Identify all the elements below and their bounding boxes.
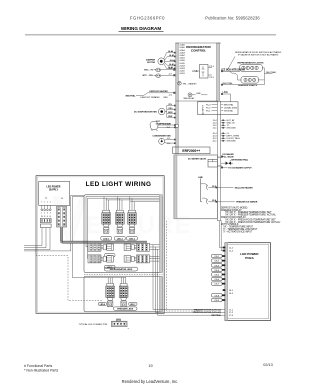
svg-text:ORG: ORG: [168, 108, 173, 110]
svg-text:NTC - TV: NTC - TV: [144, 70, 153, 72]
freezer LED column 2: [119, 284, 137, 307]
svg-text:LINE: LINE: [192, 71, 198, 73]
svg-text:J5-1: J5-1: [167, 138, 171, 140]
LED module column 1: [101, 210, 112, 240]
svg-text:1: 1: [44, 202, 45, 204]
svg-text:FROM FZD MOTOR (120V AC): FROM FZD MOTOR (120V AC): [193, 311, 222, 314]
dashed wire down right side of LED box: [167, 221, 200, 311]
svg-text:ERF2000++: ERF2000++: [182, 149, 200, 153]
svg-text:a: a: [128, 328, 129, 330]
typical led connector: [79, 319, 129, 330]
svg-text:1: 1: [47, 202, 48, 204]
svg-text:FREEZER LEDS: FREEZER LEDS: [117, 309, 133, 311]
svg-text:LED-1: LED-1: [103, 238, 110, 240]
svg-text:120VAC 60HZ: 120VAC 60HZ: [224, 106, 238, 109]
svg-text:FREEZER ICE MAKER: FREEZER ICE MAKER: [236, 201, 258, 204]
watermark LeadVenture: [52, 196, 192, 246]
svg-text:NEUTRAL: NEUTRAL: [224, 103, 235, 106]
condenser fan: [152, 134, 175, 144]
notes legend block: [221, 206, 281, 233]
svg-text:RED: RED: [168, 116, 173, 118]
svg-text:CN-7: CN-7: [214, 284, 220, 286]
svg-text:FGHG2366PF0: FGHG2366PF0: [130, 16, 165, 21]
svg-text:NEUTRAL: NEUTRAL: [223, 82, 234, 85]
svg-text:CONTROL: CONTROL: [191, 49, 206, 53]
LED row2 right module LED-5: [124, 243, 159, 251]
NTC - TV sensor: [144, 68, 175, 72]
svg-text:DC WATER VALVE: DC WATER VALVE: [188, 158, 207, 161]
svg-text:DEFROST HEATER: DEFROST HEATER: [150, 90, 169, 93]
svg-text:PCBA: PCBA: [245, 256, 254, 260]
svg-text:LINE: LINE: [223, 91, 229, 94]
note pointer line: [228, 57, 236, 70]
PCBA bottom input pins J7: [193, 308, 234, 317]
left bar junction pin nubs: [174, 52, 175, 144]
ice maker fill valve: [221, 153, 249, 165]
svg-text:GROUND: GROUND: [227, 141, 237, 143]
svg-text:J2-4: J2-4: [169, 94, 173, 96]
svg-text:RED: RED: [164, 97, 169, 99]
LED module column 3: [127, 210, 138, 240]
wires refrigerator row modules to right and down to PCBA: [153, 245, 222, 316]
svg-text:LED-2: LED-2: [117, 238, 124, 240]
svg-text:J3-1: J3-1: [167, 127, 171, 129]
line wire to AC input: [221, 94, 231, 102]
svg-text:CN-5: CN-5: [214, 275, 220, 277]
svg-text:J4-A4: J4-A4: [179, 49, 185, 52]
CN connector stack 2: [212, 289, 234, 302]
svg-text:NEUTRAL: NEUTRAL: [266, 71, 277, 74]
pin group J2: [212, 133, 241, 143]
svg-text:BRN: BRN: [168, 112, 173, 114]
svg-text:FILL VALVE: FILL VALVE: [223, 156, 235, 159]
svg-text:GROUND: GROUND: [227, 128, 237, 130]
left bar pin labels for sensor rows: [167, 68, 173, 145]
freezer ice maker output: [202, 198, 258, 204]
svg-text:Publication No: 5995628236: Publication No: 5995628236: [205, 16, 260, 21]
svg-text:1: 1: [41, 202, 42, 204]
drops into led column 3: [130, 197, 134, 211]
svg-text:MOTOR: MOTOR: [147, 62, 155, 64]
refrigerator control board left connector bar: [176, 43, 179, 154]
LED row3 right module: [124, 255, 159, 263]
LED module column 2: [114, 210, 125, 240]
AC input box: [198, 102, 239, 115]
pin group J1 below AC box: [212, 119, 236, 130]
svg-text:GROUND: GROUND: [224, 110, 234, 112]
header rule: [25, 34, 276, 35]
refrigerator LEDs inner box: [84, 195, 162, 273]
svg-text:NEUTRAL: NEUTRAL: [211, 314, 221, 317]
svg-text:J4-A2: J4-A2: [179, 54, 185, 57]
svg-text:LINE: LINE: [196, 93, 201, 95]
DC evaporator fan: [134, 104, 175, 118]
svg-text:J4-A3: J4-A3: [179, 51, 185, 54]
mullion heater output: [201, 184, 253, 190]
drops into led column 1: [104, 197, 108, 211]
svg-text:CN-3: CN-3: [214, 265, 220, 267]
NTC - CDL sensor: [143, 74, 176, 78]
relay K1 inside control board: [192, 65, 214, 79]
left edge drop wires to row modules: [86, 197, 88, 259]
VCC compressor: [150, 121, 179, 130]
spine wires ERF to PCBA: [219, 221, 222, 251]
svg-text:LED POWER: LED POWER: [47, 187, 61, 189]
refrigerator control board right connector bar: [216, 43, 219, 101]
LED power supply connector left group: [40, 205, 51, 227]
svg-text:MAX RELAY: MAX RELAY: [184, 97, 195, 100]
svg-text:J4-A3: J4-A3: [169, 63, 174, 66]
control board left pin labels J4 column: [179, 44, 185, 76]
svg-text:J4-A6: J4-A6: [179, 44, 185, 47]
right bar junction pin squares: [216, 70, 225, 202]
freezer led feed stubs: [108, 278, 125, 284]
DC water valve: [188, 157, 223, 168]
svg-text:REFRIGERATOR LIGHTS: REFRIGERATOR LIGHTS: [238, 62, 264, 65]
svg-text:SUPPLY: SUPPLY: [49, 190, 58, 192]
svg-text:J4-A1: J4-A1: [179, 57, 185, 60]
svg-text:REFRIGERATOR DOOR SWITCH IS AC: REFRIGERATOR DOOR SWITCH IS ACTIVATED: [235, 51, 282, 54]
svg-text:J5-3: J5-3: [167, 143, 171, 145]
svg-text:J4-A5: J4-A5: [169, 54, 174, 57]
ERF2000 header box: [173, 147, 210, 154]
relay MAX RELAY at control board bottom: [184, 93, 208, 100]
svg-text:TH1 - GASKET: TH1 - GASKET: [183, 82, 198, 85]
CN connector stack 1: [212, 254, 226, 285]
svg-text:J4-B1: J4-B1: [179, 73, 185, 75]
svg-text:NEUTRAL: NEUTRAL: [126, 95, 137, 98]
LED power PCBA box: [225, 243, 271, 321]
svg-text:'X' - ACTIVATION ICE INPUT: 'X' - ACTIVATION ICE INPUT: [223, 230, 253, 233]
svg-text:J2-7: J2-7: [169, 74, 173, 76]
LED light wiring outer box: [36, 176, 164, 314]
svg-text:LED LIGHT WIRING: LED LIGHT WIRING: [86, 181, 152, 188]
line feed inside ERF board: [198, 177, 203, 202]
svg-text:19: 19: [148, 364, 152, 368]
svg-text:CN-6: CN-6: [214, 279, 220, 281]
svg-text:# Functional Parts: # Functional Parts: [24, 364, 52, 368]
svg-text:WHITE/NEUTRAL: WHITE/NEUTRAL: [232, 159, 249, 162]
svg-text:J2-8: J2-8: [169, 68, 173, 70]
svg-text:CN-2: CN-2: [214, 261, 220, 263]
neutral return wires of lights: [221, 68, 273, 85]
svg-text:AC INPUT: AC INPUT: [202, 105, 205, 115]
refrigerator leds label: [105, 267, 138, 271]
svg-text:02/13: 02/13: [263, 363, 273, 367]
damper motor wires to connector: [164, 53, 176, 69]
freezer lights box: [238, 77, 258, 87]
wire branch to freezer lights: [230, 71, 242, 80]
svg-text:1: 1: [41, 213, 42, 215]
svg-text:LED-7: LED-7: [130, 304, 135, 306]
svg-text:* Non-Illustrated Parts: * Non-Illustrated Parts: [24, 369, 58, 373]
ERF2000 board box: [174, 155, 217, 219]
thick gray wire pair from right group down to refrigerator LED rows: [62, 227, 148, 242]
svg-text:REFRIGERATOR LEDS: REFRIGERATOR LEDS: [110, 268, 133, 271]
LED row3 left module: [88, 255, 115, 269]
LED row2 left module LED-4: [88, 243, 115, 257]
svg-text:CN-8: CN-8: [214, 295, 220, 297]
svg-text:WIRING DIAGRAM: WIRING DIAGRAM: [121, 26, 161, 31]
svg-text:FREEZER LIGHTS: FREEZER LIGHTS: [238, 85, 257, 87]
svg-text:J4-A5: J4-A5: [179, 46, 185, 49]
dashed door wire: [36, 250, 103, 301]
svg-text:J3-2: J3-2: [167, 124, 171, 126]
svg-text:W: W: [41, 216, 43, 218]
ground symbol on control board: [178, 82, 198, 86]
svg-text:TYPICAL LED CONNECTOR: TYPICAL LED CONNECTOR: [79, 323, 108, 326]
freezer LED column 1: [98, 284, 114, 307]
LED power supply connector right group: [57, 207, 67, 228]
svg-text:NTC - CDL: NTC - CDL: [143, 75, 154, 77]
svg-text:CN-4: CN-4: [214, 270, 220, 272]
svg-text:J4-A6: J4-A6: [168, 50, 173, 53]
to ice maker output wire: [221, 167, 252, 170]
wires from supply left group to page left margin: [24, 228, 50, 250]
svg-text:4: 4: [50, 213, 51, 215]
freezer leds label: [114, 307, 138, 310]
defrost heater row: [126, 90, 176, 99]
svg-text:1: 1: [50, 202, 51, 204]
svg-text:CN-9: CN-9: [214, 300, 220, 302]
PCBA top input pins: [223, 247, 234, 253]
distribution bus inside refrigerator led box: [86, 197, 159, 202]
svg-text:LED-3: LED-3: [129, 238, 136, 240]
svg-text:DC EVAPORATOR FAN: DC EVAPORATOR FAN: [134, 110, 157, 113]
dashed divider: [84, 274, 162, 276]
damper motor: [146, 58, 165, 65]
svg-text:DEFROST TERM: DEFROST TERM: [141, 97, 157, 99]
bus extension wires to left margin and freezer feed: [24, 195, 126, 277]
refrigerator lights box: [238, 62, 264, 72]
svg-text:RED: RED: [156, 97, 161, 99]
svg-text:TO ICE MAKER OUTPUT: TO ICE MAKER OUTPUT: [228, 167, 252, 170]
svg-text:CN-1: CN-1: [214, 256, 220, 258]
wire control board to refrigerator lights: [221, 70, 240, 72]
LED power supply box: [39, 182, 70, 206]
freezer LEDs inner box: [84, 276, 162, 312]
svg-text:MULLION HEATER: MULLION HEATER: [235, 186, 253, 189]
svg-text:Rendered by LeadVenture, Inc.: Rendered by LeadVenture, Inc.: [122, 379, 179, 384]
svg-text:IF GASKETS SWITCH IS NOT ACTIV: IF GASKETS SWITCH IS NOT ACTIVATED: [238, 54, 279, 57]
svg-text:LED-6: LED-6: [100, 304, 105, 306]
central spine double-line connector: [217, 101, 220, 221]
drops into led column 2: [118, 197, 122, 211]
refrigerator control board outline: [176, 43, 222, 101]
svg-text:DAMPER: DAMPER: [146, 58, 156, 61]
svg-text:2: 2: [44, 213, 45, 215]
svg-text:3: 3: [47, 213, 48, 215]
svg-text:CONDENSER FAN: CONDENSER FAN: [152, 134, 171, 137]
